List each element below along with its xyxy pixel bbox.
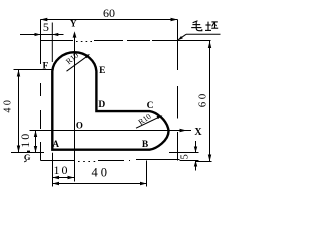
svg-text:40: 40 (92, 166, 111, 180)
blank top extension to 60-dim (178, 40, 211, 42)
svg-text:R10: R10 (137, 112, 153, 127)
svg-text:G: G (24, 152, 31, 162)
R10 leader (right cap) (136, 116, 162, 128)
svg-text:10: 10 (54, 163, 70, 177)
blank bottom edge (41, 160, 180, 162)
blank bottom right extension segment (180, 160, 199, 162)
毛 character (drawn) (191, 21, 202, 31)
dim 10 bottom: extension lines (52, 153, 54, 187)
svg-text:F: F (42, 61, 48, 71)
svg-text:O: O (76, 120, 83, 130)
dim 5 top: extension line from part (51, 23, 53, 63)
dim 10 bottom: dimension line (53, 177, 75, 179)
svg-text:5: 5 (43, 20, 49, 34)
blank top edge (41, 41, 178, 42)
label 毛坯 leader shelf (186, 33, 221, 35)
svg-text:D: D (98, 100, 105, 110)
坯 character (drawn) (205, 22, 218, 31)
R10 leader (top dome) (67, 55, 90, 71)
svg-text:5: 5 (180, 154, 191, 159)
dim 40 bottom: right extension line (146, 161, 148, 187)
dim 10 left: dimension line (35, 131, 37, 153)
label 毛坯 leader diagonal with arrow (178, 34, 186, 39)
extension line left of A (11, 152, 44, 154)
svg-text:E: E (99, 66, 105, 76)
blank left edge (chain line) (40, 20, 42, 161)
svg-text:C: C (147, 101, 154, 111)
dim 60 right: line and arrows (209, 41, 211, 162)
svg-text:X: X (194, 127, 202, 138)
Y axis (74, 37, 76, 182)
dim 60 top: line and arrows (40, 19, 177, 21)
svg-text:60: 60 (197, 91, 209, 107)
svg-text:B: B (142, 140, 149, 150)
part outline (thick) (52, 52, 168, 150)
X axis (30, 130, 192, 132)
dim 40 left: dimension line (18, 70, 20, 153)
svg-text:A: A (52, 139, 59, 149)
svg-text:10: 10 (18, 132, 32, 148)
blank right edge (chain line) (177, 20, 179, 161)
point G marker (27, 151, 30, 153)
dim 5 right: dimension line segments with outside arrows (195, 141, 197, 153)
G tail tick (24, 161, 27, 162)
dim 40 bottom: dimension line (53, 183, 147, 185)
svg-text:40: 40 (3, 98, 14, 113)
dim 40 left: extension line at F level (14, 69, 53, 71)
dim 5 top: dimension line with outside arrows (20, 34, 64, 36)
svg-text:60: 60 (103, 6, 115, 20)
60-dim bottom right extension (196, 161, 212, 163)
dim 5 right: extension line (169, 152, 199, 154)
